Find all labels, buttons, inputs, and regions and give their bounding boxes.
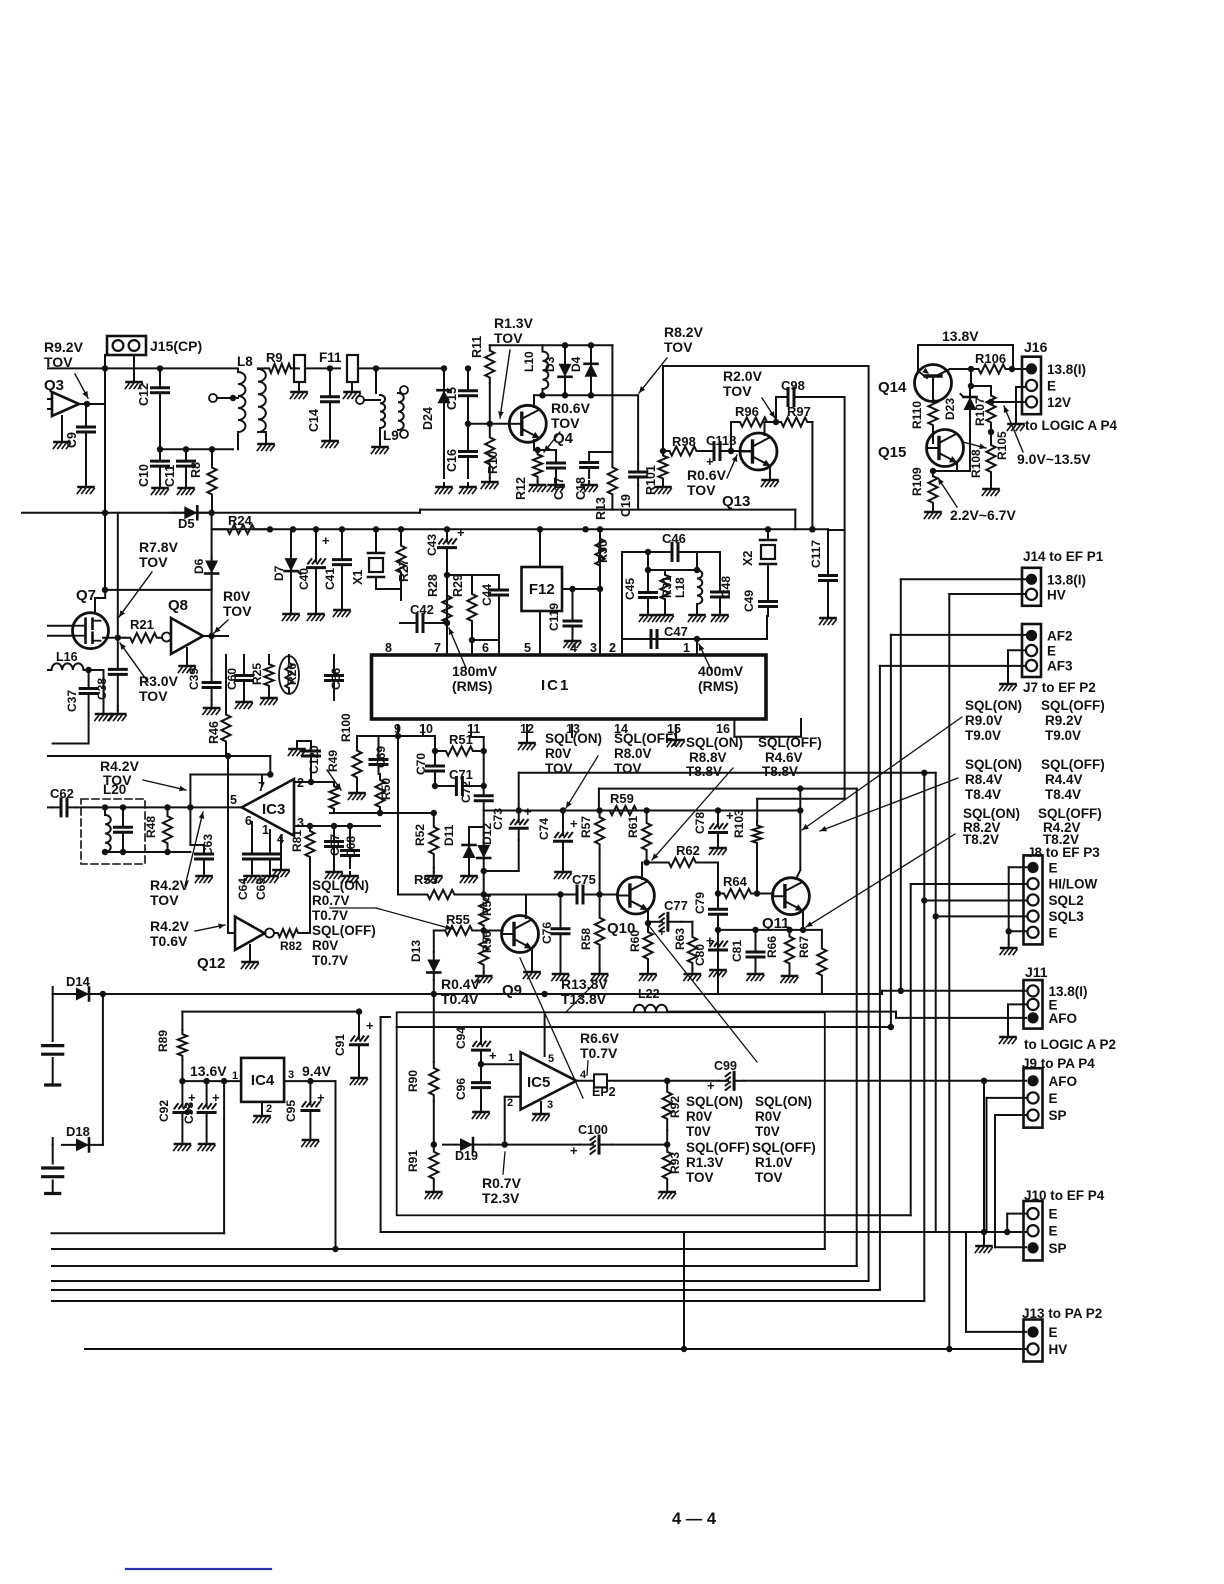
transistor Q9 [502, 916, 539, 953]
svg-text:TOV: TOV [551, 415, 580, 431]
svg-text:AF2: AF2 [1047, 629, 1073, 644]
svg-text:R3.0V: R3.0V [139, 673, 179, 689]
ground under Q3 [61, 416, 63, 438]
L20 bottom wire [105, 851, 190, 853]
wire Q15 emitter node [956, 462, 958, 471]
svg-text:R66: R66 [765, 936, 779, 958]
svg-text:R63: R63 [673, 928, 687, 950]
svg-text:SQL(ON): SQL(ON) [965, 698, 1022, 713]
svg-text:R109: R109 [910, 467, 924, 496]
svg-text:TOV: TOV [494, 330, 523, 346]
svg-text:TOV: TOV [223, 603, 252, 619]
svg-text:R4.2V: R4.2V [150, 877, 190, 893]
svg-text:+: + [317, 1090, 325, 1105]
svg-text:R1.0V: R1.0V [755, 1155, 793, 1170]
svg-text:400mV: 400mV [698, 663, 744, 679]
svg-text:T0.6V: T0.6V [150, 933, 188, 949]
wire J8 SQL3 from y772 rail down [936, 915, 1027, 917]
wire Q7 source to R21 [103, 637, 125, 639]
svg-text:SQL3: SQL3 [1049, 909, 1085, 924]
wire J15 left pin down [104, 355, 106, 513]
svg-text:Q14: Q14 [878, 379, 907, 396]
svg-text:C117: C117 [809, 540, 823, 568]
wire J13 E riser [965, 1232, 967, 1332]
svg-text:L16: L16 [56, 650, 78, 664]
svg-text:C49: C49 [742, 590, 756, 612]
svg-text:4: 4 [570, 641, 577, 655]
svg-text:R9.0V: R9.0V [965, 713, 1003, 728]
L8 left winding bottom wire [237, 432, 239, 449]
wire Q15 collector to R105 wiper [963, 442, 986, 448]
svg-text:C9: C9 [65, 432, 79, 448]
wire C118 to Q13 base [731, 450, 752, 452]
svg-text:8: 8 [385, 641, 392, 655]
svg-text:J16: J16 [1024, 339, 1048, 355]
svg-text:R12: R12 [514, 477, 528, 500]
svg-text:HV: HV [1047, 587, 1066, 602]
svg-text:L10: L10 [522, 351, 536, 372]
svg-text:TOV: TOV [614, 761, 642, 776]
svg-text:Q13: Q13 [722, 493, 750, 510]
wire J14 13.8 to bus [901, 578, 1026, 580]
ground at Q8 [186, 648, 188, 662]
svg-text:Q3: Q3 [44, 377, 64, 394]
F11 resonator 1 [295, 367, 299, 369]
filter F12 [522, 567, 563, 611]
wire pin12/13 stubs [526, 725, 528, 737]
wire J7 AF2 to bus [891, 634, 1026, 636]
op-amp IC5 [521, 1052, 577, 1109]
svg-text:J7 to EF P2: J7 to EF P2 [1023, 680, 1096, 695]
wire J14 HV to bus [949, 593, 1026, 595]
svg-text:13.8(I): 13.8(I) [1047, 572, 1086, 587]
wire C46 box left edge [621, 552, 623, 639]
svg-text:9.0V~13.5V: 9.0V~13.5V [1017, 451, 1091, 467]
wire y799 rail [757, 798, 844, 800]
svg-text:R57: R57 [579, 816, 593, 838]
svg-text:R67: R67 [797, 936, 811, 958]
wire audio box outline [397, 1012, 825, 1215]
wire J10 E2 row y1232 [381, 1231, 1026, 1233]
wire J9 AFO junction [981, 1078, 987, 1084]
wire AFO jog to J11 [895, 1012, 897, 1018]
svg-text:R11: R11 [470, 336, 484, 358]
svg-text:SQL(OFF): SQL(OFF) [1041, 757, 1105, 772]
svg-text:1: 1 [232, 1070, 238, 1082]
wire Q4 emitter to R12/C17 [533, 440, 535, 450]
wire 13.6V node [182, 1080, 241, 1082]
svg-text:C40: C40 [297, 568, 311, 590]
wire Q8 output [203, 635, 228, 637]
wire Q14 node down [970, 369, 972, 386]
wire y810 R59 rail [600, 810, 647, 812]
svg-text:TOV: TOV [139, 688, 168, 704]
wire HV rail y1349 [85, 1348, 1026, 1350]
wire main top rail y368 [48, 367, 236, 369]
svg-text:C37: C37 [65, 690, 79, 712]
wire Q10 base node [600, 894, 618, 896]
capacitor below D18 [52, 1145, 54, 1164]
svg-text:R60: R60 [628, 930, 642, 952]
wire R89 feed [182, 1011, 359, 1013]
svg-text:7: 7 [434, 641, 441, 655]
svg-text:R58: R58 [579, 928, 593, 950]
wire 9.4V down to rail [335, 1081, 337, 1249]
wire emitter row y930 [718, 929, 803, 931]
svg-text:R2.0V: R2.0V [723, 368, 763, 384]
wire Q14 collector to R106 [950, 368, 971, 370]
svg-text:R49: R49 [326, 750, 340, 772]
svg-text:J11: J11 [1025, 964, 1048, 980]
svg-text:+: + [457, 525, 465, 540]
wire Q13 box right edge bus down to rail3 [868, 366, 870, 1281]
wire 13.8V top rail [918, 344, 1013, 346]
wire J8 HI/LOW to rail4 [911, 883, 1027, 885]
svg-text:EP2: EP2 [592, 1085, 616, 1099]
svg-text:R4.4V: R4.4V [1045, 772, 1083, 787]
svg-text:C92: C92 [157, 1100, 171, 1122]
wire pin9 node [397, 725, 399, 736]
svg-text:R0V: R0V [312, 938, 338, 953]
svg-text:TOV: TOV [150, 892, 179, 908]
svg-text:Q7: Q7 [76, 587, 96, 604]
svg-text:R97: R97 [787, 404, 811, 419]
svg-text:T9.0V: T9.0V [965, 728, 1001, 743]
svg-text:4: 4 [580, 1069, 587, 1081]
svg-text:180mV: 180mV [452, 663, 498, 679]
L8 tap [209, 394, 217, 402]
svg-text:2.2V~6.7V: 2.2V~6.7V [950, 507, 1016, 523]
svg-text:E: E [1049, 861, 1058, 876]
svg-text:L22: L22 [638, 987, 660, 1001]
wire Q4 base [468, 423, 510, 425]
svg-text:3: 3 [288, 1069, 294, 1081]
svg-text:C18: C18 [574, 477, 588, 500]
svg-text:J14 to EF P1: J14 to EF P1 [1023, 549, 1104, 564]
svg-text:R8.8V: R8.8V [689, 750, 727, 765]
svg-text:R9.2V: R9.2V [44, 339, 84, 355]
svg-text:J15(CP): J15(CP) [150, 338, 202, 354]
wire D6 column [211, 513, 213, 590]
svg-text:R0.4V: R0.4V [441, 976, 481, 992]
svg-text:R0V: R0V [686, 1109, 712, 1124]
wire rail3 y1281 [52, 1280, 869, 1282]
svg-text:D3: D3 [543, 356, 557, 372]
svg-text:C72: C72 [459, 781, 473, 803]
svg-text:SQL(ON): SQL(ON) [963, 806, 1020, 821]
svg-text:4 — 4: 4 — 4 [672, 1510, 717, 1528]
transistor Q11 [772, 878, 809, 915]
svg-text:SQL(ON): SQL(ON) [312, 878, 369, 893]
wire Q4 collector [533, 395, 535, 407]
svg-text:13.8V: 13.8V [942, 328, 979, 344]
wire C45/R31/L18 tops [647, 552, 649, 583]
svg-text:T8.8V: T8.8V [686, 764, 722, 779]
svg-text:6: 6 [482, 641, 489, 655]
svg-text:16: 16 [716, 722, 730, 736]
svg-text:T8.8V: T8.8V [762, 764, 798, 779]
svg-text:R8: R8 [189, 462, 203, 478]
svg-text:+: + [366, 1018, 374, 1033]
wire F12 output [562, 588, 600, 590]
svg-text:SQL(ON): SQL(ON) [545, 731, 602, 746]
svg-text:AFO: AFO [1049, 1011, 1078, 1026]
svg-text:6: 6 [245, 814, 252, 828]
wire pin11 column [470, 725, 472, 737]
svg-text:C39: C39 [187, 668, 201, 690]
transistor Q10 [617, 877, 654, 914]
svg-text:E: E [1047, 644, 1056, 659]
svg-text:R82: R82 [280, 939, 302, 953]
svg-text:IC1: IC1 [541, 677, 570, 694]
svg-text:(RMS): (RMS) [698, 678, 738, 694]
blue underline [126, 1568, 271, 1570]
svg-text:T8.2V: T8.2V [963, 832, 999, 847]
wire D19 row [490, 1144, 580, 1146]
svg-text:C15: C15 [445, 387, 459, 410]
svg-text:R64: R64 [723, 874, 748, 889]
svg-text:R13: R13 [594, 497, 608, 520]
svg-text:D7: D7 [272, 565, 286, 581]
annotation arrow R1.3V to Q4 base [500, 350, 510, 418]
svg-text:C96: C96 [454, 1078, 468, 1100]
wire IC3 pin3 rail [294, 825, 380, 827]
svg-text:C66: C66 [329, 668, 343, 690]
svg-text:TOV: TOV [687, 482, 716, 498]
svg-text:Q15: Q15 [878, 444, 906, 461]
svg-text:R0.7V: R0.7V [482, 1175, 522, 1191]
wire Q9 collector [525, 895, 527, 919]
IC IC4 [241, 1058, 284, 1102]
wire C47 row [622, 638, 697, 640]
svg-text:IC4: IC4 [251, 1072, 275, 1089]
wire R11 top rail y345 [490, 344, 613, 346]
wire rail4 y1290 [52, 1289, 880, 1291]
svg-text:C38: C38 [95, 678, 109, 700]
annotation arrow col1 to C78 [802, 717, 962, 830]
svg-text:L18: L18 [673, 577, 687, 598]
capacitor below D14 [52, 994, 54, 1041]
svg-text:12V: 12V [1047, 395, 1071, 410]
svg-text:T2.3V: T2.3V [482, 1190, 520, 1206]
svg-text:C81: C81 [730, 940, 744, 962]
annotation arrow to Q3 output [75, 374, 88, 398]
transistor Q13 [740, 433, 777, 470]
svg-text:T8.4V: T8.4V [965, 787, 1001, 802]
svg-text:C94: C94 [454, 1027, 468, 1049]
wire D14 rail y994 [52, 987, 54, 994]
svg-text:TOV: TOV [723, 383, 752, 399]
svg-text:T8.4V: T8.4V [1045, 787, 1081, 802]
svg-text:SQL(OFF): SQL(OFF) [1041, 698, 1105, 713]
wire Q13 box top edge [663, 365, 867, 367]
svg-text:C95: C95 [284, 1100, 298, 1122]
svg-text:C91: C91 [333, 1034, 347, 1056]
svg-text:C19: C19 [619, 494, 633, 517]
wire L8 secondary top to R9 [258, 367, 265, 369]
wire Q9 emitter [531, 948, 533, 968]
wire L10/D3/D4 bottom rail to R8.2V node [534, 394, 638, 396]
svg-text:3: 3 [297, 816, 304, 830]
svg-text:13.8(I): 13.8(I) [1047, 362, 1086, 377]
svg-text:1: 1 [262, 823, 269, 837]
svg-text:TOV: TOV [686, 1170, 714, 1185]
svg-text:L9: L9 [383, 428, 399, 443]
diagonal from Q10 area to bottom [649, 926, 757, 1062]
wire Q11 emitter [802, 910, 804, 930]
svg-text:T0V: T0V [755, 1124, 780, 1139]
svg-text:L20: L20 [103, 782, 126, 797]
svg-text:C45: C45 [623, 578, 637, 600]
svg-text:+: + [658, 924, 666, 939]
svg-text:+: + [322, 533, 330, 548]
wire Q13 box bottom corner [794, 510, 796, 530]
svg-text:+: + [489, 1048, 497, 1063]
svg-text:R6.6V: R6.6V [580, 1030, 620, 1046]
svg-text:C93: C93 [182, 1102, 196, 1124]
wire outer box left edge [380, 1017, 382, 1232]
wire rail2 y1266 [52, 1265, 857, 1267]
svg-text:C100: C100 [578, 1123, 608, 1137]
svg-text:R0V: R0V [755, 1109, 781, 1124]
ground at J7 [1007, 680, 1009, 684]
wire J16 12V pin [991, 401, 1026, 403]
svg-text:+: + [570, 1143, 578, 1158]
wire Q10/Q11 top rail y788 [599, 788, 857, 790]
wire J7 AF3 to bus [880, 665, 1026, 667]
svg-text:T9.0V: T9.0V [1045, 728, 1081, 743]
wire Q13 box left edge [662, 366, 664, 451]
annotation line SQL to Q9 base [330, 907, 376, 909]
svg-text:R0.6V: R0.6V [551, 400, 591, 416]
svg-text:E: E [1049, 1091, 1058, 1106]
svg-text:R92: R92 [668, 1096, 682, 1118]
wire J16 13.8 pin [1013, 368, 1026, 370]
svg-text:R7.8V: R7.8V [139, 539, 179, 555]
svg-text:2: 2 [609, 641, 616, 655]
svg-text:Q12: Q12 [197, 955, 225, 972]
wire J9 SP down to J10 SP [995, 1114, 1026, 1116]
svg-text:C74: C74 [537, 818, 551, 840]
svg-text:D11: D11 [442, 824, 456, 846]
svg-text:SQL(OFF): SQL(OFF) [752, 1140, 816, 1155]
svg-text:J8 to EF P3: J8 to EF P3 [1027, 845, 1100, 860]
svg-text:to LOGIC A P2: to LOGIC A P2 [1024, 1037, 1116, 1052]
svg-text:D19: D19 [455, 1149, 478, 1163]
svg-text:E: E [1049, 1207, 1058, 1222]
svg-text:2: 2 [266, 1103, 272, 1115]
svg-text:E: E [1049, 925, 1058, 940]
svg-text:T0.7V: T0.7V [312, 953, 348, 968]
wire C98 branch down x844 [828, 529, 845, 531]
wire pins14-16 outline box [675, 725, 677, 736]
wire squelch rail y772.8 [519, 772, 936, 774]
svg-text:X1: X1 [351, 570, 365, 585]
svg-text:C11: C11 [163, 465, 177, 487]
svg-text:R110: R110 [910, 401, 924, 429]
svg-text:R81: R81 [290, 830, 304, 852]
wire C12 bottom to C10/C11/R8 rail [159, 412, 161, 449]
svg-text:C12: C12 [137, 383, 151, 406]
svg-text:+: + [707, 1078, 715, 1093]
wire mid rail y529 [212, 528, 828, 530]
svg-text:5: 5 [548, 1053, 554, 1065]
wire Q13 emitter to ground [769, 466, 771, 476]
ground at Q12 [249, 945, 251, 958]
svg-text:R53: R53 [414, 872, 438, 887]
svg-text:SP: SP [1049, 1108, 1067, 1123]
svg-text:T0V: T0V [686, 1124, 711, 1139]
wire rail5 y1301 [52, 1300, 924, 1302]
wire R97 right down to mid rail [811, 422, 813, 529]
svg-text:R29: R29 [451, 574, 465, 597]
wire pin10 column [422, 725, 424, 736]
svg-text:+: + [570, 816, 578, 831]
svg-text:to LOGIC A P4: to LOGIC A P4 [1025, 418, 1117, 433]
svg-text:C48: C48 [719, 576, 733, 598]
wire Q4 bottom rail [420, 509, 612, 511]
svg-text:5: 5 [524, 641, 531, 655]
svg-text:R103: R103 [732, 809, 746, 838]
svg-text:TOV: TOV [139, 554, 168, 570]
svg-text:2: 2 [507, 1097, 513, 1109]
svg-text:R0.6V: R0.6V [687, 467, 727, 483]
wire Q3 output [79, 403, 105, 405]
transistor Q4 [509, 405, 546, 442]
svg-text:HV: HV [1049, 1342, 1068, 1357]
svg-text:R21: R21 [130, 617, 154, 632]
svg-text:C41: C41 [323, 568, 337, 590]
wire Q11 collector [796, 870, 800, 879]
svg-text:R62: R62 [676, 843, 700, 858]
wire y810 rail C73/C74 [484, 810, 600, 812]
svg-text:E: E [1047, 378, 1056, 393]
svg-text:C60: C60 [225, 668, 239, 690]
svg-text:AFO: AFO [1049, 1074, 1078, 1089]
wire box right edge to rail1 [824, 1215, 826, 1249]
svg-text:R8.4V: R8.4V [965, 772, 1003, 787]
wire pin2/pin1 stubs [621, 639, 623, 655]
svg-text:SQL(ON): SQL(ON) [755, 1094, 812, 1109]
annotation arrow col2 to R103 [820, 778, 958, 831]
svg-text:C10: C10 [137, 464, 151, 487]
svg-text:R8.2V: R8.2V [664, 324, 704, 340]
svg-text:R4.6V: R4.6V [765, 750, 803, 765]
svg-text:R1.3V: R1.3V [686, 1155, 724, 1170]
svg-text:SQL(OFF): SQL(OFF) [1038, 806, 1102, 821]
wire R4.2V rail [48, 755, 270, 757]
svg-text:AF3: AF3 [1047, 659, 1073, 674]
svg-text:D13: D13 [409, 940, 423, 962]
wire J10 SP [995, 1246, 1026, 1248]
svg-text:R9.2V: R9.2V [1045, 713, 1083, 728]
wire IC3 pin7 up [261, 775, 263, 787]
IC IC1 box [372, 655, 767, 719]
annotation SQL13 arrow [566, 756, 598, 808]
wire D12 bottom to C73 column [484, 870, 519, 872]
tuned circuit L20 dashed box [81, 799, 145, 864]
svg-text:C79: C79 [693, 892, 707, 914]
svg-text:R24: R24 [228, 513, 253, 528]
wire J10 E1 [1007, 1213, 1026, 1215]
svg-text:F11: F11 [319, 350, 342, 365]
svg-text:SQL(OFF): SQL(OFF) [614, 731, 678, 746]
svg-text:HI/LOW: HI/LOW [1049, 877, 1098, 892]
wire R8.2V node down C19 column [637, 395, 639, 464]
annotation arrow to Q10 emitter from R0.4V [650, 925, 652, 1090]
svg-text:R89: R89 [156, 1030, 170, 1052]
svg-text:Q4: Q4 [553, 430, 574, 447]
